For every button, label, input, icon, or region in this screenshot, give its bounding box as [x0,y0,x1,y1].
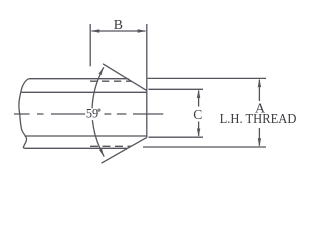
minor-diameter line upper [22,91,147,93]
dimension line A [258,80,260,146]
shaft top edge [29,78,129,80]
A extension line bottom [143,146,266,148]
arrowhead A top [258,79,261,88]
hidden thread-root dashes upper [90,80,132,82]
arrowhead B right [138,29,147,32]
C extension line top [149,88,204,90]
arrowhead A bottom [258,138,261,147]
dimension line C [198,91,200,137]
svg-text:B: B [114,17,123,32]
svg-text:59: 59 [86,107,98,121]
upper chamfer flank line [103,64,147,91]
minor-diameter line lower [25,135,147,137]
white mask behind 59 deg label [85,108,104,120]
hidden thread-root dashes lower [90,145,132,147]
angle dimension arc 59 deg [92,67,104,156]
break line (left end S-curve) [19,79,29,149]
arrowhead arc bottom [99,149,104,157]
svg-text:C: C [193,107,202,122]
C extension line bottom [149,136,204,138]
shaft bottom edge [24,147,127,149]
arrowhead arc top [98,67,104,75]
dimension line B [92,30,146,32]
svg-text:L.H. THREAD: L.H. THREAD [220,111,297,126]
B left extension line [89,24,91,66]
arrowhead C top [197,90,200,99]
arrowhead C bottom [197,129,200,138]
right end face / B right extension line [146,24,148,137]
lower chamfer flank line [102,137,147,163]
arrowhead B left [91,29,100,32]
centerline of shaft [14,113,163,115]
A extension line top [148,77,266,79]
